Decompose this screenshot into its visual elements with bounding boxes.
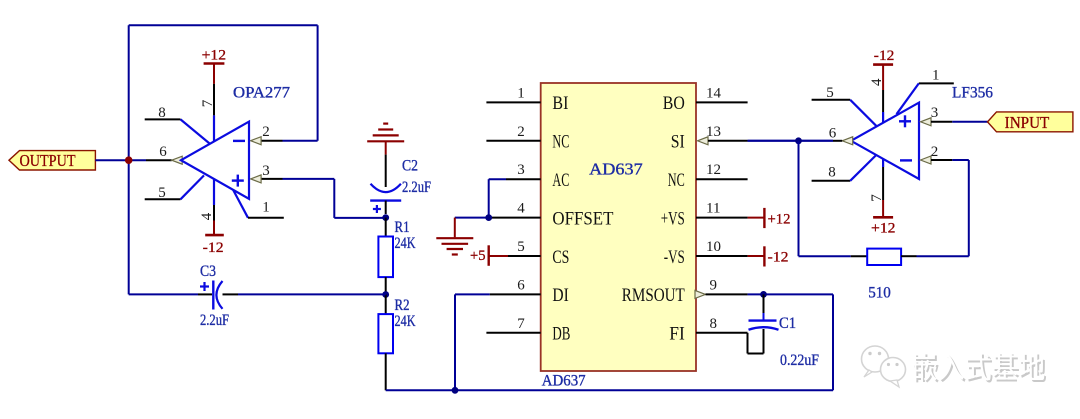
svg-text:14: 14 [706,85,722,101]
svg-text:C3: C3 [200,263,216,280]
svg-text:1: 1 [517,85,525,101]
svg-text:510: 510 [868,285,891,302]
svg-text:7: 7 [869,194,885,202]
svg-text:11: 11 [706,201,720,217]
svg-text:AD637: AD637 [589,160,643,179]
svg-text:OFFSET: OFFSET [552,208,613,229]
svg-text:-VS: -VS [664,247,685,268]
svg-text:1: 1 [932,68,940,84]
svg-text:5: 5 [826,85,834,101]
svg-text:6: 6 [829,126,837,142]
svg-text:7: 7 [200,99,216,107]
svg-text:-12: -12 [874,48,895,64]
svg-text:+12: +12 [871,221,896,237]
svg-text:2.2uF: 2.2uF [402,179,431,196]
svg-text:8: 8 [158,105,166,121]
svg-text:2: 2 [931,144,939,160]
svg-text:8: 8 [710,316,718,332]
svg-text:2.2uF: 2.2uF [200,312,229,329]
svg-text:7: 7 [517,316,525,332]
svg-text:10: 10 [706,239,721,255]
svg-text:NC: NC [668,170,685,191]
svg-text:0.22uF: 0.22uF [780,352,819,369]
svg-text:OPA277: OPA277 [233,85,290,102]
svg-text:6: 6 [517,277,525,293]
svg-text:CS: CS [552,247,569,268]
svg-text:DB: DB [552,324,570,345]
svg-text:嵌入式基地: 嵌入式基地 [911,352,1045,385]
svg-text:24K: 24K [395,235,417,252]
svg-text:5: 5 [517,239,525,255]
svg-text:LF356: LF356 [952,85,993,102]
svg-text:-12: -12 [203,240,224,256]
svg-text:6: 6 [159,144,167,160]
svg-text:BO: BO [663,93,685,114]
svg-text:4: 4 [199,212,215,220]
svg-text:AC: AC [552,170,569,191]
svg-text:INPUT: INPUT [1005,113,1050,132]
svg-text:+12: +12 [202,48,227,64]
svg-text:3: 3 [517,162,525,178]
svg-text:SI: SI [671,132,685,153]
svg-text:RMSOUT: RMSOUT [622,285,685,306]
svg-text:5: 5 [158,185,166,201]
svg-text:3: 3 [931,105,939,121]
svg-text:13: 13 [706,124,721,140]
svg-text:BI: BI [552,93,568,114]
svg-text:1: 1 [262,200,270,216]
svg-text:OUTPUT: OUTPUT [20,151,77,170]
svg-text:NC: NC [552,132,569,153]
svg-text:4: 4 [517,201,525,217]
svg-text:3: 3 [262,163,270,179]
svg-text:AD637: AD637 [542,373,586,390]
svg-text:C2: C2 [402,158,418,175]
svg-text:8: 8 [828,165,836,181]
svg-text:DI: DI [552,285,568,306]
svg-text:2: 2 [262,124,270,140]
svg-text:24K: 24K [395,313,417,330]
svg-text:FI: FI [669,324,685,345]
svg-text:-12: -12 [768,250,789,266]
svg-text:+12: +12 [768,212,791,228]
svg-text:C1: C1 [779,315,796,332]
svg-text:R1: R1 [395,219,410,236]
svg-text:12: 12 [706,162,721,178]
svg-text:4: 4 [869,78,885,86]
svg-text:9: 9 [710,277,718,293]
svg-text:R2: R2 [395,297,410,314]
svg-text:2: 2 [517,124,525,140]
svg-text:+5: +5 [470,248,486,264]
svg-text:+VS: +VS [661,208,685,229]
